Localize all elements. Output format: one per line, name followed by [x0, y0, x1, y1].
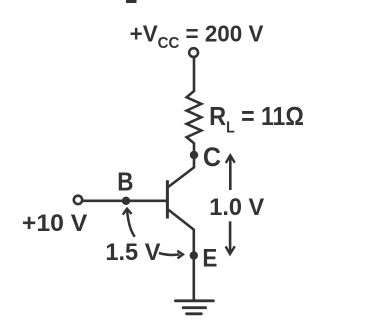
svg-text:1.0 V: 1.0 V — [209, 194, 264, 221]
arrow 1.0 V down — [229, 221, 232, 252]
terminal VCC — [189, 48, 198, 57]
node B — [122, 197, 130, 205]
arrow to node E — [159, 253, 180, 255]
svg-text:C: C — [203, 143, 221, 172]
transistor Q1 emitter lead — [168, 210, 194, 256]
terminal input — [74, 196, 82, 204]
node E — [190, 251, 198, 259]
svg-text:1.5 V: 1.5 V — [105, 239, 160, 266]
transistor Q1 base bar — [166, 180, 169, 218]
node C — [190, 151, 198, 159]
svg-text:E: E — [202, 244, 217, 273]
wire collector — [168, 155, 194, 187]
arrow 1.0 V up — [229, 157, 232, 191]
wire VCC terminal to resistor — [193, 57, 196, 92]
wire resistor to node C — [193, 143, 196, 156]
svg-text:B: B — [117, 168, 133, 197]
ground — [175, 301, 213, 314]
curved arrow to node B — [127, 211, 135, 237]
svg-text:+10 V: +10 V — [22, 210, 88, 237]
wire emitter to ground — [193, 256, 196, 301]
resistor RL — [187, 91, 202, 143]
wire base — [83, 199, 166, 202]
top crop mark — [126, 0, 137, 3]
